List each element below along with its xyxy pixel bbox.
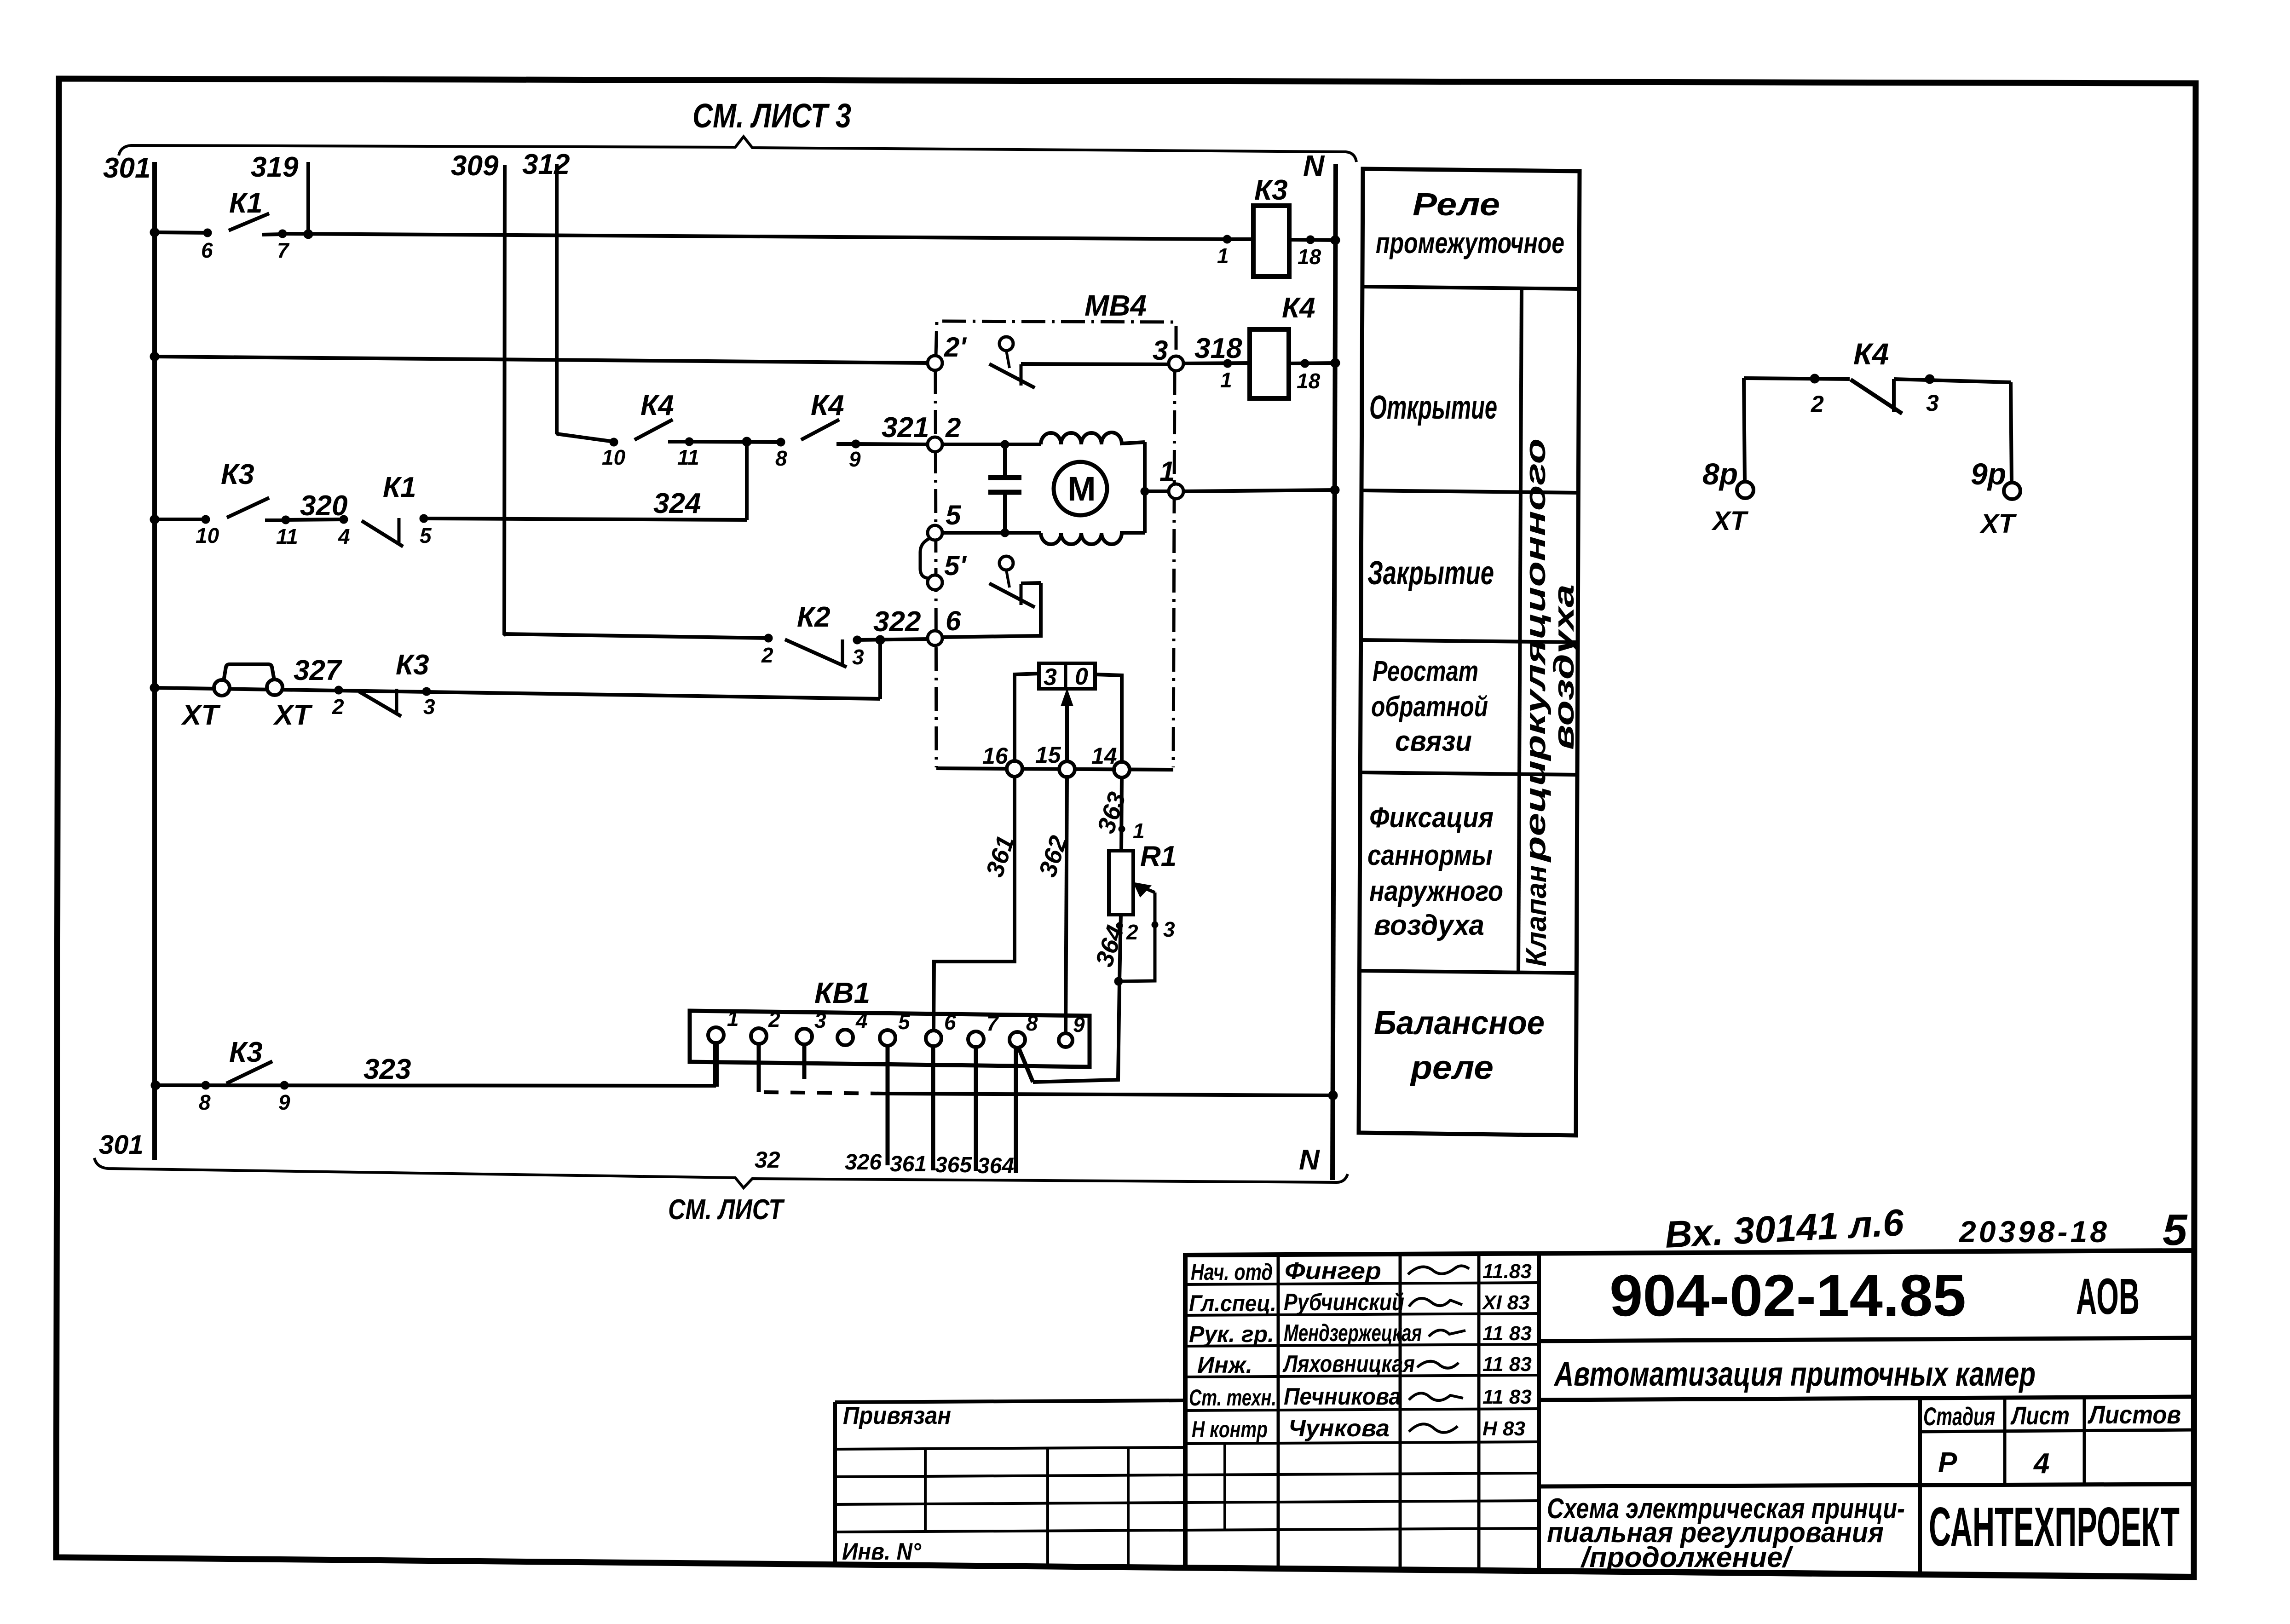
wire rheostat right to 14 xyxy=(1095,674,1122,762)
node pin1 R1 xyxy=(1119,826,1125,832)
node pin3 R1 xyxy=(1152,921,1158,928)
svg-text:8: 8 xyxy=(775,446,787,470)
contact K4 pins 10-11 xyxy=(602,390,699,469)
svg-text:5: 5 xyxy=(2163,1205,2188,1255)
wire 323 row xyxy=(156,1085,716,1086)
contact K4 break pins 2-3 xyxy=(1744,374,2011,417)
wire XT jumper arc xyxy=(224,664,274,681)
svg-text:реле: реле xyxy=(1410,1049,1494,1086)
wire stub KV1-3 xyxy=(802,1044,807,1079)
svg-text:16: 16 xyxy=(982,743,1009,769)
svg-text:18: 18 xyxy=(1298,245,1321,269)
svg-text:Балансное: Балансное xyxy=(1374,1005,1545,1042)
wire K4 row middle xyxy=(689,442,781,442)
wire 8p drop xyxy=(1744,378,1745,482)
svg-text:14: 14 xyxy=(1091,743,1117,769)
svg-text:3: 3 xyxy=(1163,917,1175,941)
svg-text:рециркуляционного: рециркуляционного xyxy=(1520,438,1552,863)
wire 312 xyxy=(557,164,560,435)
svg-text:3: 3 xyxy=(423,695,435,719)
svg-text:0: 0 xyxy=(1075,663,1088,690)
wire 9p drop xyxy=(2011,382,2012,483)
wire 324 drop xyxy=(745,442,749,520)
table divider row2 xyxy=(1361,490,1578,493)
svg-text:К4: К4 xyxy=(640,390,674,421)
svg-text:15: 15 xyxy=(1035,742,1061,768)
svg-text:XI 83: XI 83 xyxy=(1481,1291,1530,1314)
node junction 324 drop xyxy=(742,437,751,446)
terminal KV1-6 xyxy=(926,1031,941,1046)
wire KV1-8 diagonal to R1 xyxy=(1019,1048,1033,1082)
wire K2 row xyxy=(504,634,768,638)
svg-text:2: 2 xyxy=(768,1008,780,1031)
svg-text:324: 324 xyxy=(653,488,701,519)
svg-text:ХТ: ХТ xyxy=(1979,509,2017,539)
table divider row3 xyxy=(1361,640,1578,642)
svg-text:К4: К4 xyxy=(811,390,844,421)
wire 361 from terminal 16 to KV1-6 xyxy=(934,777,1015,1031)
svg-text:Ст. техн.: Ст. техн. xyxy=(1189,1385,1276,1411)
contact K1 pins 6-7 xyxy=(201,187,290,262)
node junction rail row2 xyxy=(150,352,159,361)
svg-text:Открытие: Открытие xyxy=(1369,389,1497,426)
svg-text:7: 7 xyxy=(277,238,290,262)
svg-text:N: N xyxy=(1299,1144,1320,1176)
svg-text:10: 10 xyxy=(196,524,219,547)
label Fiksatsiya sannormy naruzhnogo vozdukha xyxy=(1367,802,1503,941)
wire motor loop bottom xyxy=(942,531,1041,535)
node junction wiper-R1bottom xyxy=(1114,977,1123,985)
wire motor loop top xyxy=(942,443,1041,446)
svg-text:Стадия: Стадия xyxy=(1923,1402,1995,1431)
svg-text:312: 312 xyxy=(522,149,570,180)
terminal KV1-8 xyxy=(1009,1032,1025,1048)
svg-text:1: 1 xyxy=(1220,368,1232,392)
wire KV1-2 to N dashed then solid xyxy=(764,1092,884,1094)
svg-text:301: 301 xyxy=(99,1130,144,1160)
table inner vertical xyxy=(1518,288,1522,972)
wire rheostat left to 16 xyxy=(1015,674,1039,761)
svg-text:9р: 9р xyxy=(1971,457,2006,491)
svg-text:обратной: обратной xyxy=(1371,691,1488,723)
contact K2 pins 2-3 xyxy=(761,601,864,669)
wiper arrow R1 xyxy=(1119,882,1155,981)
terminal 16 xyxy=(1007,761,1022,777)
node junction rail 327row xyxy=(150,683,159,692)
svg-text:/продолжение/: /продолжение/ xyxy=(1580,1542,1794,1573)
svg-text:8: 8 xyxy=(199,1090,211,1114)
svg-text:R1: R1 xyxy=(1140,841,1177,872)
node 5 xyxy=(928,525,942,540)
contact K3 break pins 2-3 xyxy=(332,649,435,719)
terminal KV1-4 xyxy=(837,1030,853,1045)
node 2' xyxy=(928,356,942,370)
svg-text:Привязан: Привязан xyxy=(843,1402,951,1429)
svg-text:Реле: Реле xyxy=(1413,186,1500,222)
svg-text:6: 6 xyxy=(201,238,213,262)
svg-text:ХТ: ХТ xyxy=(1711,506,1749,536)
svg-text:365: 365 xyxy=(935,1153,972,1177)
terminal strip KV1 xyxy=(690,1011,1090,1067)
wire 320 row xyxy=(155,518,206,521)
svg-text:1: 1 xyxy=(727,1007,739,1031)
svg-text:321: 321 xyxy=(882,412,929,443)
svg-text:3: 3 xyxy=(1044,664,1057,691)
terminal KV1-9 xyxy=(1059,1033,1073,1047)
terminal KV1-7 xyxy=(968,1031,984,1047)
stadiya list listov cells xyxy=(1920,1398,2194,1573)
svg-text:Чункова: Чункова xyxy=(1288,1415,1390,1442)
svg-text:10: 10 xyxy=(602,445,626,469)
privyazan box xyxy=(835,1400,1185,1567)
svg-text:6: 6 xyxy=(944,1010,956,1034)
node 2 xyxy=(928,437,942,452)
wire bottom sheet edge xyxy=(94,1158,1348,1188)
wire MB4 right boundary dash-dot xyxy=(1173,371,1175,767)
svg-text:7: 7 xyxy=(986,1011,999,1035)
node junction row2-N xyxy=(1331,358,1340,368)
svg-text:Инж.: Инж. xyxy=(1197,1352,1252,1378)
svg-text:11 83: 11 83 xyxy=(1482,1322,1532,1345)
svg-text:САНТЕХПРОЕКТ: САНТЕХПРОЕКТ xyxy=(1929,1496,2180,1558)
wire 363 from terminal 14 to R1 xyxy=(1121,777,1122,851)
motor M xyxy=(1054,462,1107,515)
svg-text:11.83: 11.83 xyxy=(1482,1260,1532,1283)
svg-text:11 83: 11 83 xyxy=(1482,1386,1532,1408)
wire right rail N xyxy=(1332,164,1336,1180)
label schema title xyxy=(1547,1493,1905,1573)
svg-text:К1: К1 xyxy=(229,187,263,219)
wire row1 span xyxy=(283,234,1227,239)
wire 361 drop xyxy=(931,1046,935,1170)
node 6 xyxy=(928,631,942,645)
svg-text:Вх. 30141 л.6: Вх. 30141 л.6 xyxy=(1664,1202,1905,1256)
terminal 14 xyxy=(1114,762,1130,777)
wire top bus to sheet 3 xyxy=(119,137,1356,162)
svg-text:Закрытие: Закрытие xyxy=(1367,555,1494,592)
svg-text:2: 2 xyxy=(761,643,773,667)
svg-text:К3: К3 xyxy=(1254,174,1288,206)
resistor R1 xyxy=(1109,841,1177,915)
svg-text:1: 1 xyxy=(1159,456,1175,487)
node junction rail row1 xyxy=(150,228,159,237)
svg-text:саннормы: саннормы xyxy=(1367,840,1493,871)
svg-text:наружного: наружного xyxy=(1369,875,1503,907)
svg-text:воздуха: воздуха xyxy=(1374,910,1484,941)
svg-text:9: 9 xyxy=(1073,1013,1085,1037)
svg-text:К4: К4 xyxy=(1282,292,1315,324)
wire R1 bottom xyxy=(1033,915,1121,1082)
wire 319 xyxy=(306,162,310,234)
node junction 327 riser xyxy=(876,635,885,645)
svg-text:Лист: Лист xyxy=(2010,1401,2070,1430)
svg-text:4: 4 xyxy=(855,1009,868,1033)
contact K4 pins 8-9 xyxy=(775,390,861,471)
contact K1 break pins 4-5 xyxy=(338,472,432,548)
svg-text:связи: связи xyxy=(1395,726,1472,757)
node 5' xyxy=(928,575,942,590)
svg-text:326: 326 xyxy=(845,1150,882,1175)
table divider row5 xyxy=(1359,971,1576,973)
node 1 xyxy=(1169,484,1183,499)
wire K4 row from 312 xyxy=(557,434,614,442)
terminal XT left xyxy=(214,680,230,696)
svg-text:8: 8 xyxy=(1026,1011,1038,1035)
svg-text:3: 3 xyxy=(1926,390,1939,416)
wiper arrow from 15 xyxy=(1061,689,1073,761)
svg-text:904-02-14.85: 904-02-14.85 xyxy=(1609,1263,1966,1329)
svg-text:364: 364 xyxy=(1090,922,1129,970)
svg-text:18: 18 xyxy=(1297,369,1321,393)
winding bottom xyxy=(1041,533,1145,544)
node junction cap bottom xyxy=(1001,529,1009,537)
svg-text:К1: К1 xyxy=(383,472,416,503)
svg-text:318: 318 xyxy=(1194,333,1242,364)
svg-text:Автоматизация приточных камер: Автоматизация приточных камер xyxy=(1553,1355,2036,1393)
node junction rail 323row xyxy=(151,1081,160,1090)
svg-text:воздуха: воздуха xyxy=(1548,584,1580,750)
svg-text:301: 301 xyxy=(103,152,150,184)
svg-text:К4: К4 xyxy=(1853,337,1889,371)
svg-text:3: 3 xyxy=(1153,335,1168,366)
svg-text:Печникова: Печникова xyxy=(1284,1383,1401,1410)
node junction node1row-N xyxy=(1330,485,1339,495)
capacitor C xyxy=(988,444,1021,533)
svg-text:Листов: Листов xyxy=(2087,1400,2181,1429)
function table frame xyxy=(1359,169,1580,1135)
svg-text:СМ. ЛИСТ: СМ. ЛИСТ xyxy=(668,1194,785,1226)
svg-text:Клапан: Клапан xyxy=(1521,865,1552,967)
svg-text:309: 309 xyxy=(451,150,499,182)
svg-text:ХТ: ХТ xyxy=(181,699,221,731)
svg-text:К2: К2 xyxy=(797,601,831,633)
svg-text:Н контр: Н контр xyxy=(1192,1417,1268,1442)
svg-text:МВ4: МВ4 xyxy=(1084,289,1147,322)
terminal KV1-5 xyxy=(880,1030,895,1046)
label Klapan retsirkulyatsionnogo vertical xyxy=(1520,438,1580,967)
node pin2 R1 xyxy=(1116,922,1123,929)
svg-text:Реостат: Реостат xyxy=(1373,656,1478,687)
svg-text:361: 361 xyxy=(890,1152,927,1176)
svg-text:2: 2 xyxy=(332,695,344,719)
svg-text:20398-18: 20398-18 xyxy=(1958,1215,2110,1249)
svg-text:1: 1 xyxy=(1217,244,1229,268)
svg-text:Рубчинский: Рубчинский xyxy=(1284,1289,1404,1316)
terminal KV1-3 xyxy=(796,1029,812,1044)
contact K3 pins 10-11 xyxy=(196,459,298,548)
svg-text:4: 4 xyxy=(2033,1448,2049,1480)
svg-text:Н 83: Н 83 xyxy=(1482,1417,1525,1440)
svg-text:Нач. отд: Нач. отд xyxy=(1191,1259,1273,1285)
wire riser 327 xyxy=(878,640,882,699)
wire motor loop right xyxy=(1143,442,1147,533)
contact MB4 limit switch 2' xyxy=(989,337,1170,388)
svg-text:322: 322 xyxy=(873,606,921,638)
svg-text:АОВ: АОВ xyxy=(2076,1268,2140,1325)
terminal KV1-2 xyxy=(751,1028,767,1044)
svg-text:3: 3 xyxy=(814,1008,826,1032)
svg-text:6: 6 xyxy=(946,605,961,636)
svg-text:1: 1 xyxy=(1133,819,1145,843)
wire 320 mid xyxy=(286,519,344,520)
svg-text:ХТ: ХТ xyxy=(273,699,313,731)
table divider row4 xyxy=(1361,772,1577,775)
svg-text:N: N xyxy=(1303,149,1325,182)
svg-text:2: 2 xyxy=(945,412,961,443)
relay coil K3 pins 1-18 xyxy=(1217,174,1336,276)
node junction 319-row1 xyxy=(304,230,313,239)
wire 362 from terminal 15 to KV1-9 xyxy=(1066,777,1067,1034)
svg-text:К3: К3 xyxy=(221,459,254,490)
svg-text:363: 363 xyxy=(1092,789,1131,836)
svg-text:Рук. гр.: Рук. гр. xyxy=(1189,1321,1274,1347)
svg-text:5': 5' xyxy=(944,550,967,581)
terminal XT 9p xyxy=(2004,483,2020,499)
winding top xyxy=(1041,432,1145,444)
svg-text:2: 2 xyxy=(1811,391,1824,417)
svg-text:364: 364 xyxy=(977,1154,1014,1178)
contact MB4 limit switch 5' xyxy=(989,556,1041,607)
wire motor to node 1 xyxy=(1145,490,1169,493)
svg-text:3: 3 xyxy=(852,645,864,669)
label Rele promezhutochnoe xyxy=(1376,186,1564,259)
label Reostat obratnoy svyazi xyxy=(1371,656,1488,757)
wire 327 row xyxy=(155,688,880,699)
terminal XT 8p xyxy=(1737,482,1754,498)
wire 364 drop xyxy=(1014,1048,1018,1173)
svg-text:9: 9 xyxy=(278,1090,290,1114)
svg-text:11: 11 xyxy=(677,445,699,469)
svg-text:5: 5 xyxy=(946,500,962,530)
svg-text:32: 32 xyxy=(755,1147,780,1173)
svg-text:Ляховницкая: Ляховницкая xyxy=(1282,1351,1415,1377)
wire MB4 bottom boundary xyxy=(936,768,1173,770)
svg-text:Р: Р xyxy=(1938,1447,1957,1479)
svg-text:323: 323 xyxy=(363,1054,411,1085)
wire 5' wrap to node 6 xyxy=(942,583,1041,637)
node junction N bottom xyxy=(1328,1091,1338,1100)
wire row2 xyxy=(155,357,928,363)
svg-text:11: 11 xyxy=(276,524,298,548)
contact K3 pins 8-9 xyxy=(199,1037,290,1114)
wire stub KV1-2 xyxy=(757,1044,761,1092)
wire 309 xyxy=(504,165,506,635)
wire node1 to N xyxy=(1183,490,1336,491)
svg-text:К3: К3 xyxy=(396,649,429,681)
table divider row1 xyxy=(1362,287,1579,289)
node junction cap top xyxy=(1001,440,1009,449)
staff table verticals xyxy=(1277,1255,1280,1568)
node junction row1-N xyxy=(1331,236,1340,245)
svg-text:327: 327 xyxy=(294,655,342,686)
wire to node 2 xyxy=(856,444,928,444)
wire MB4 boundary top dash-dot xyxy=(936,321,1176,356)
wire 324 xyxy=(424,518,747,520)
rheostat feedback box 3-0 xyxy=(1039,663,1095,691)
title block outer xyxy=(1185,1250,2194,1576)
svg-text:Фиксация: Фиксация xyxy=(1369,802,1494,834)
svg-text:9: 9 xyxy=(849,447,861,471)
wire stub KV1-1 xyxy=(713,1043,719,1087)
svg-text:промежуточное: промежуточное xyxy=(1376,226,1564,259)
svg-text:М: М xyxy=(1067,470,1096,508)
title big box dividers xyxy=(1539,1338,2194,1341)
svg-text:11 83: 11 83 xyxy=(1482,1353,1532,1376)
svg-text:4: 4 xyxy=(338,524,350,548)
svg-text:Гл.спец.: Гл.спец. xyxy=(1189,1290,1276,1316)
svg-text:Мендзержецкая: Мендзержецкая xyxy=(1284,1320,1422,1347)
terminal XT right xyxy=(267,680,283,695)
svg-text:К3: К3 xyxy=(229,1037,263,1068)
svg-text:Инв. N°: Инв. N° xyxy=(842,1538,922,1565)
relay coil K4 pins 1-18 xyxy=(1183,292,1336,398)
svg-text:5: 5 xyxy=(898,1010,911,1034)
wire 365 drop xyxy=(974,1047,978,1171)
wire MB4 left boundary dash-dot xyxy=(935,370,936,767)
wire K2 to node6 xyxy=(857,639,928,640)
wire jog 5 to 5' xyxy=(920,538,930,578)
terminal KV1-1 xyxy=(708,1027,724,1043)
node junction rail 320row xyxy=(150,515,159,524)
svg-text:Фингер: Фингер xyxy=(1285,1258,1381,1284)
staff table rows xyxy=(1185,1283,1539,1284)
terminal 15 xyxy=(1059,761,1075,777)
svg-text:КВ1: КВ1 xyxy=(814,976,870,1009)
node 3 xyxy=(1169,356,1183,371)
wire 326 drop xyxy=(886,1046,890,1165)
svg-text:8р: 8р xyxy=(1702,457,1738,491)
wire row1 left xyxy=(155,232,208,233)
svg-text:5: 5 xyxy=(420,524,432,547)
svg-text:СМ. ЛИСТ 3: СМ. ЛИСТ 3 xyxy=(692,97,851,135)
wire left rail 301 xyxy=(152,162,157,1160)
svg-text:319: 319 xyxy=(251,151,299,183)
svg-text:2': 2' xyxy=(944,332,967,363)
label Balansnoe rele xyxy=(1374,1005,1545,1086)
